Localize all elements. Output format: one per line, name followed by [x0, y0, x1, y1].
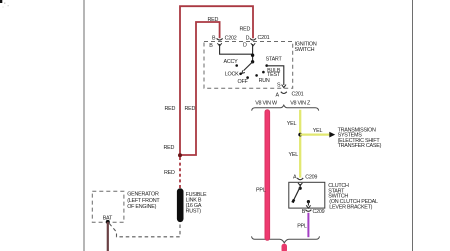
label GENERATOR	[127, 192, 160, 210]
wire RED feed outer (fusible link to ignition D)	[180, 6, 253, 155]
svg-text:B: B	[209, 43, 213, 49]
connector C202 pin B	[209, 35, 236, 49]
clutch switch arm open	[293, 187, 301, 203]
wiper arm to LOCK	[242, 62, 253, 74]
svg-text:V8 VIN W: V8 VIN W	[255, 101, 278, 107]
wire RED inner branch (to ignition B)	[180, 22, 220, 155]
wire YEL branch to transmission	[300, 133, 329, 135]
svg-text:C209: C209	[305, 174, 317, 180]
svg-text:LOCK: LOCK	[225, 72, 239, 78]
svg-text:YEL: YEL	[313, 128, 323, 134]
label TRANSMISSION SYSTEMS	[338, 127, 382, 149]
clutch switch contact top	[299, 184, 302, 190]
svg-text:SWITCH: SWITCH	[295, 47, 315, 53]
page edge line right	[412, 0, 414, 251]
brace merge bottom	[252, 236, 320, 242]
label CLUTCH START SWITCH	[328, 183, 378, 210]
svg-text:C209: C209	[313, 209, 325, 215]
svg-text:B: B	[212, 35, 216, 41]
generator dashed box	[92, 191, 124, 222]
label V8 VIN W	[255, 101, 278, 107]
svg-text:A: A	[276, 93, 280, 99]
arrow into clutch switch	[298, 183, 302, 186]
svg-text:PPL: PPL	[256, 187, 266, 193]
wire YEL (V8 VIN Z)	[299, 110, 301, 178]
svg-text:ACCY: ACCY	[224, 59, 239, 65]
contact RUN	[255, 74, 270, 84]
label RED mid	[164, 145, 175, 151]
label PPL purple wire	[297, 224, 307, 230]
svg-text:TEST: TEST	[267, 72, 281, 78]
terminal BAT	[103, 215, 113, 224]
svg-text:(LEFT FRONT: (LEFT FRONT	[127, 198, 160, 204]
label YEL branch	[313, 128, 323, 134]
contact OFF	[238, 76, 249, 85]
wire battery maroon	[107, 222, 109, 251]
brace split top	[252, 105, 319, 111]
wire dashed link BAT to fusible link	[109, 223, 180, 237]
rotary pivot dot	[251, 60, 254, 63]
svg-text:RED: RED	[164, 170, 175, 176]
contact ACCY	[224, 59, 239, 67]
wire PPL purple	[307, 213, 309, 237]
ignition internal wire D	[252, 44, 254, 62]
svg-text:C201: C201	[258, 35, 270, 41]
label RED lower	[164, 170, 175, 176]
arrow to transmission systems	[329, 132, 335, 138]
label YEL lower	[289, 152, 299, 158]
svg-text:S: S	[277, 82, 281, 88]
svg-text:D: D	[243, 43, 247, 49]
connector C201 pin A	[276, 91, 304, 98]
fusible link B	[177, 188, 184, 222]
svg-text:OF ENGINE): OF ENGINE)	[127, 204, 156, 210]
svg-text:OFF: OFF	[238, 79, 249, 85]
connector C201 pin D	[243, 35, 270, 49]
wire PNK thick (V8 VIN W)	[264, 112, 270, 238]
ignition switch dashed box	[204, 42, 293, 89]
svg-text:START: START	[266, 57, 283, 63]
clutch start switch box	[289, 182, 325, 208]
label RED left outer	[165, 106, 176, 112]
label RED right	[240, 27, 251, 33]
wire START to S terminal	[267, 66, 286, 89]
svg-text:PPL: PPL	[297, 224, 307, 230]
label FUSIBLE LINK B	[186, 192, 207, 215]
svg-text:RED: RED	[240, 27, 251, 33]
contact START	[265, 57, 282, 67]
contact BULB TEST	[262, 68, 281, 78]
svg-text:C202: C202	[225, 35, 237, 41]
label IGNITION SWITCH	[295, 41, 317, 52]
svg-text:TRANSFER CASE): TRANSFER CASE)	[338, 143, 382, 149]
svg-text:RED: RED	[208, 17, 219, 23]
connector C209 pin A	[293, 174, 317, 180]
svg-text:D: D	[246, 35, 250, 41]
ignition internal wire B	[220, 44, 253, 54]
connector C209 pin B	[302, 209, 325, 215]
svg-text:V8 VIN Z: V8 VIN Z	[290, 101, 311, 107]
scan mark top-left	[0, 0, 9, 8]
label RED left inner	[185, 106, 196, 112]
svg-text:RED: RED	[164, 145, 175, 151]
svg-text:YEL: YEL	[287, 121, 297, 127]
junction yellow splice	[298, 133, 302, 137]
svg-text:A: A	[293, 174, 297, 180]
label RED top	[208, 17, 219, 23]
svg-text:YEL: YEL	[289, 152, 299, 158]
svg-text:GENERATOR: GENERATOR	[127, 192, 159, 198]
svg-text:C201: C201	[292, 91, 304, 97]
label PPL pink wire	[256, 187, 266, 193]
junction dot B/D	[251, 54, 254, 57]
label YEL upper	[287, 121, 297, 127]
svg-text:RED: RED	[185, 106, 196, 112]
contact LOCK	[225, 72, 242, 78]
clutch switch contact out	[306, 200, 310, 208]
wire PNK output stub	[282, 244, 288, 251]
svg-text:RUST): RUST)	[186, 208, 202, 214]
svg-text:LEVER BRACKET): LEVER BRACKET)	[329, 204, 372, 210]
junction red splice	[178, 153, 182, 157]
svg-text:RED: RED	[165, 106, 176, 112]
wire RED dashed (to fusible link)	[179, 157, 181, 189]
label V8 VIN Z	[290, 101, 311, 107]
svg-text:RUN: RUN	[259, 78, 270, 84]
page edge line left	[83, 0, 85, 251]
